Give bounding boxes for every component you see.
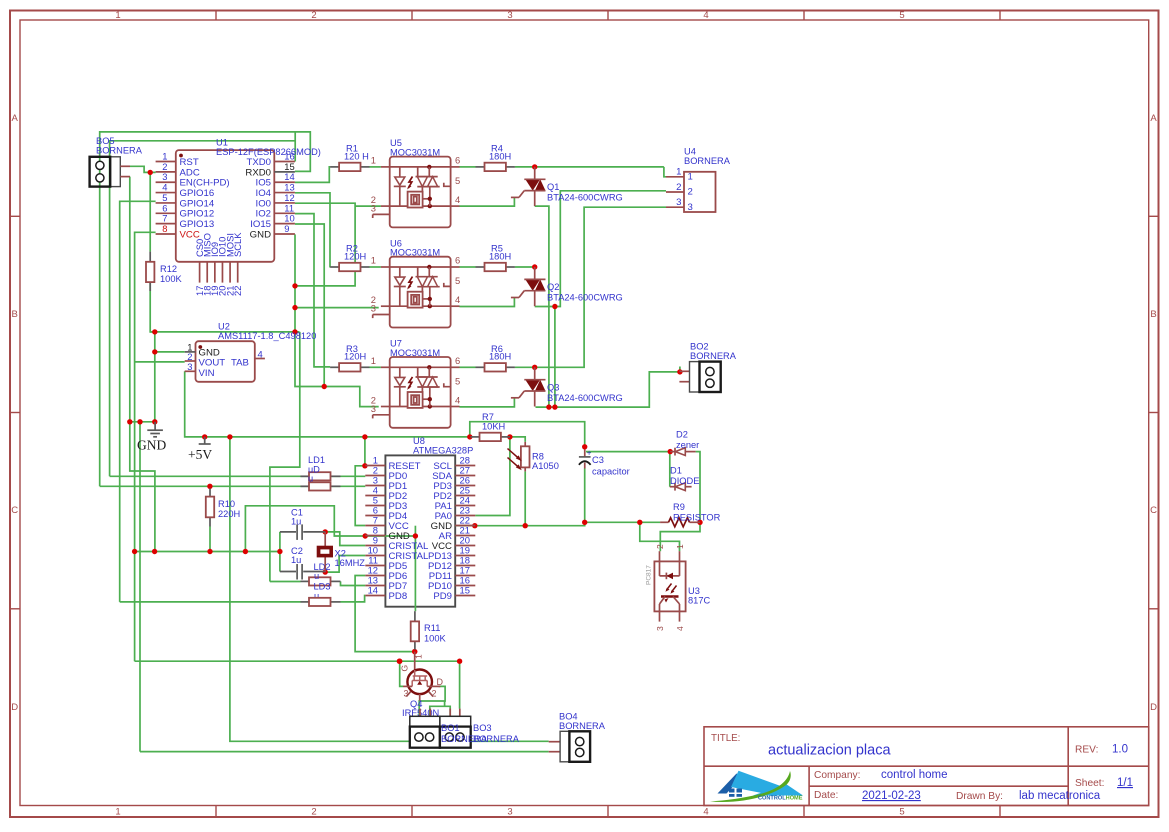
svg-text:TXD0: TXD0 xyxy=(246,157,271,168)
wire U7 pin4 gate Q3 xyxy=(460,398,515,407)
svg-text:B: B xyxy=(1150,309,1156,320)
svg-text:180H: 180H xyxy=(489,151,511,161)
svg-text:8: 8 xyxy=(162,223,167,234)
svg-text:1: 1 xyxy=(162,151,167,162)
svg-text:3: 3 xyxy=(162,171,167,182)
wire U7 pin6 to R6 xyxy=(460,366,476,368)
svg-text:CONTROLHOME: CONTROLHOME xyxy=(758,796,803,802)
svg-text:MOC3031M: MOC3031M xyxy=(390,348,440,358)
wire BO5 pin2 GND bus xyxy=(129,177,131,422)
resistor R4 xyxy=(476,166,485,168)
svg-text:U3: U3 xyxy=(688,586,700,596)
svg-text:5: 5 xyxy=(899,10,904,21)
svg-text:16: 16 xyxy=(284,151,294,162)
svg-text:LD3: LD3 xyxy=(314,582,331,592)
svg-text:5: 5 xyxy=(899,807,904,818)
wire R10 bottom xyxy=(209,527,211,552)
svg-text:7: 7 xyxy=(162,213,167,224)
svg-text:3: 3 xyxy=(371,403,376,414)
svg-text:120H: 120H xyxy=(344,251,366,261)
svg-text:4: 4 xyxy=(675,626,685,631)
svg-text:RST: RST xyxy=(180,157,199,168)
svg-text:D1: D1 xyxy=(670,466,682,476)
svg-text:12: 12 xyxy=(284,192,294,203)
capacitor C2 xyxy=(280,571,296,573)
company logo xyxy=(710,771,803,802)
svg-text:D: D xyxy=(437,677,444,687)
wire X2 bot to CRISTAL10 xyxy=(325,556,365,573)
wire C1 C2 left xyxy=(279,532,281,572)
svg-text:C: C xyxy=(11,505,18,516)
U4 BORNERA connector xyxy=(684,172,716,212)
wire ADC to R12 xyxy=(149,172,151,251)
resistor R1 xyxy=(330,166,339,168)
svg-text:3: 3 xyxy=(187,361,192,372)
wire R7 to PA0 xyxy=(475,437,510,516)
frame column ticks top xyxy=(215,11,217,21)
svg-text:1u: 1u xyxy=(291,517,301,527)
svg-text:U2: U2 xyxy=(218,322,230,332)
svg-text:PD8: PD8 xyxy=(389,591,408,602)
svg-text:BTA24-600CWRG: BTA24-600CWRG xyxy=(547,193,623,203)
resistor R10 xyxy=(209,489,211,497)
svg-text:BORNERA: BORNERA xyxy=(690,351,737,361)
U2 pins xyxy=(185,351,196,353)
wire GND horizontal U2 xyxy=(150,331,299,333)
wire U3 pin1 route xyxy=(640,522,680,551)
svg-text:10KH: 10KH xyxy=(482,421,505,431)
svg-text:1: 1 xyxy=(115,10,120,21)
resistor R9 zigzag xyxy=(660,521,668,523)
wire RXD0 bus xyxy=(110,141,296,477)
wire Q4 drain to BO1 xyxy=(419,686,445,716)
svg-text:15: 15 xyxy=(284,161,294,172)
svg-text:GPIO14: GPIO14 xyxy=(180,198,215,209)
svg-text:B: B xyxy=(12,309,18,320)
svg-text:A: A xyxy=(12,113,19,124)
svg-text:LD1: LD1 xyxy=(308,455,325,465)
wire rail BO4 pin2 xyxy=(140,751,549,753)
svg-text:Sheet:: Sheet: xyxy=(1075,778,1104,789)
frame row ticks left xyxy=(10,215,20,217)
U8 ATMEGA328P box xyxy=(385,455,455,606)
U8 pins xyxy=(365,465,385,467)
U3 transistor xyxy=(661,595,679,598)
svg-text:AMS1117-1.8_C498120: AMS1117-1.8_C498120 xyxy=(218,331,316,341)
svg-text:DIODE: DIODE xyxy=(670,476,699,486)
wire GND drop via 269 xyxy=(270,332,300,582)
resistor R5 xyxy=(476,266,485,268)
svg-text:GND: GND xyxy=(137,438,166,453)
wire PD1 rail xyxy=(100,485,366,487)
BO4 bornera symbol xyxy=(549,741,560,743)
diode D1 DIODE xyxy=(670,486,675,488)
opto-triac U5 MOC3031M xyxy=(371,155,460,228)
wire R11 bottom xyxy=(414,650,416,652)
wire pin10 riser xyxy=(295,224,324,387)
svg-text:u: u xyxy=(308,474,313,484)
frame row ticks right xyxy=(1149,215,1159,217)
resistor R2 xyxy=(330,266,339,268)
wire R1 right to U5 xyxy=(370,166,381,168)
svg-text:4: 4 xyxy=(703,10,708,21)
wire R7 right xyxy=(510,437,525,442)
BO3 bornera symbol xyxy=(449,709,451,717)
wire reset to VCC pin7 xyxy=(355,466,365,526)
triac Q2 BTA24-600CWRG xyxy=(511,267,546,306)
svg-text:120H: 120H xyxy=(344,352,366,362)
svg-text:2: 2 xyxy=(432,689,437,699)
wire U6 pin4 gate Q2 xyxy=(460,298,515,307)
wire GND bus below rail xyxy=(130,422,155,552)
wire VCC 1.8V bus V5 xyxy=(135,232,156,661)
svg-text:lab mecatronica: lab mecatronica xyxy=(1019,790,1101,802)
svg-text:3: 3 xyxy=(404,689,409,699)
frame column ticks bottom xyxy=(215,806,217,817)
wire GPIO14 bus V3 xyxy=(120,201,156,602)
svg-text:1/1: 1/1 xyxy=(1117,777,1133,789)
svg-text:1: 1 xyxy=(676,167,681,178)
svg-text:4: 4 xyxy=(455,394,460,405)
wire X2 top to CRISTAL9 xyxy=(325,532,365,546)
wire R2 right to U6 xyxy=(370,266,381,268)
wire BO5 pin1 to ADC xyxy=(130,166,156,172)
crystal X2 16MHZ xyxy=(324,532,326,546)
svg-text:IO0: IO0 xyxy=(256,198,271,209)
svg-text:1u: 1u xyxy=(291,555,301,565)
svg-text:PC817: PC817 xyxy=(646,565,653,585)
BO2 bornera symbol xyxy=(679,370,689,372)
wire GND rail to symbol xyxy=(130,421,155,423)
svg-text:4: 4 xyxy=(455,194,460,205)
svg-text:100K: 100K xyxy=(160,274,183,284)
svg-text:actualizacion placa: actualizacion placa xyxy=(768,743,891,759)
svg-text:2: 2 xyxy=(676,182,681,193)
wire cap common rail xyxy=(135,551,280,553)
wire R8 bottom xyxy=(524,471,526,525)
wire D2 to R9 right xyxy=(696,452,700,523)
wire GND8 interior xyxy=(414,526,416,536)
wire U5 pin2 drop xyxy=(355,205,381,207)
ground symbol GND xyxy=(154,422,156,430)
svg-text:BORNERA: BORNERA xyxy=(473,734,520,744)
svg-text:ESP-12F(ESP8266MOD): ESP-12F(ESP8266MOD) xyxy=(216,147,321,157)
wire R12 bottom to GND wire xyxy=(150,282,155,332)
svg-text:22: 22 xyxy=(232,286,243,296)
U1 ESP-12F box xyxy=(176,150,274,262)
svg-text:ADC: ADC xyxy=(180,167,200,178)
wire C3 bottom rail xyxy=(585,469,660,523)
svg-text:BO4: BO4 xyxy=(559,712,578,722)
wire body D to pin 14 xyxy=(341,596,366,602)
svg-text:U1: U1 xyxy=(216,138,228,148)
svg-text:15: 15 xyxy=(460,585,470,596)
svg-text:GND: GND xyxy=(250,229,271,240)
svg-text:R8: R8 xyxy=(532,452,544,462)
svg-text:2: 2 xyxy=(311,10,316,21)
wire GND22 row xyxy=(455,522,585,525)
svg-text:BORNERA: BORNERA xyxy=(96,146,143,156)
svg-text:GPIO13: GPIO13 xyxy=(180,219,215,230)
svg-text:5: 5 xyxy=(455,275,460,286)
wire U5 pin4 gate Q1 xyxy=(460,197,515,206)
resistor R7 xyxy=(471,436,480,438)
svg-text:R12: R12 xyxy=(160,264,177,274)
svg-text:IO15: IO15 xyxy=(250,219,271,230)
wire R7 +5V L xyxy=(470,422,585,447)
svg-text:3: 3 xyxy=(688,202,693,213)
svg-text:R9: R9 xyxy=(673,502,685,512)
svg-text:C: C xyxy=(1150,505,1157,516)
svg-text:2: 2 xyxy=(162,161,167,172)
svg-text:control home: control home xyxy=(881,769,947,781)
BO1 bornera symbol xyxy=(419,709,421,717)
svg-text:TITLE:: TITLE: xyxy=(711,733,740,744)
svg-text:1.0: 1.0 xyxy=(1112,744,1128,756)
svg-text:RXD0: RXD0 xyxy=(245,167,271,178)
wire rail BO4 pin1 xyxy=(471,740,549,742)
svg-text:2: 2 xyxy=(655,544,665,549)
svg-text:14: 14 xyxy=(284,171,294,182)
indicator LD3 body C xyxy=(301,580,310,582)
svg-text:1: 1 xyxy=(688,171,693,182)
wire D1 left riser xyxy=(669,452,671,487)
power flag +5V xyxy=(204,437,206,444)
svg-text:IO4: IO4 xyxy=(256,188,272,199)
resistor R12 xyxy=(149,252,151,262)
wire pin13 to R2 xyxy=(295,193,330,267)
wire R5 to Q2 xyxy=(515,266,535,268)
svg-text:+5V: +5V xyxy=(188,447,212,462)
U2 AMS1117 box xyxy=(196,341,255,382)
U1 pins left xyxy=(156,161,176,163)
BO5 bornera symbol xyxy=(110,157,120,187)
svg-text:1: 1 xyxy=(414,654,424,659)
svg-text:1: 1 xyxy=(371,255,376,266)
transistor Q4 IRF540N mosfet xyxy=(414,652,416,670)
svg-text:4: 4 xyxy=(258,349,263,360)
svg-text:6: 6 xyxy=(455,255,460,266)
optocoupler U3 817C xyxy=(654,561,685,611)
wire VOUT to bus xyxy=(135,361,185,363)
svg-text:BTA24-600CWRG: BTA24-600CWRG xyxy=(547,393,623,403)
svg-text:U4: U4 xyxy=(684,147,696,157)
svg-text:1: 1 xyxy=(371,155,376,166)
resistor R11 xyxy=(414,611,416,621)
wire R6 to Q3 xyxy=(515,366,535,368)
wire Q3 bottom to BO2 xyxy=(536,372,680,407)
svg-text:D: D xyxy=(11,702,18,713)
svg-text:BO2: BO2 xyxy=(690,342,709,352)
svg-text:4: 4 xyxy=(703,807,708,818)
capacitor C1 xyxy=(280,531,296,533)
svg-text:3: 3 xyxy=(676,197,681,208)
triac Q3 BTA24-600CWRG xyxy=(511,367,546,406)
wire reset riser from +5V xyxy=(364,437,366,466)
svg-text:D2: D2 xyxy=(676,430,688,440)
svg-text:3: 3 xyxy=(371,203,376,214)
wire pin14 to R1 xyxy=(295,167,330,183)
svg-text:220H: 220H xyxy=(218,509,240,519)
svg-text:G: G xyxy=(400,665,410,672)
svg-text:MOC3031M: MOC3031M xyxy=(390,147,440,157)
svg-text:EN(CH-PD): EN(CH-PD) xyxy=(180,178,230,189)
svg-text:GPIO12: GPIO12 xyxy=(180,209,215,220)
svg-text:BORNERA: BORNERA xyxy=(684,156,731,166)
wire LD3 to PD7 xyxy=(341,581,366,585)
svg-text:6: 6 xyxy=(455,355,460,366)
svg-text:A: A xyxy=(1150,113,1157,124)
svg-text:VIN: VIN xyxy=(199,368,215,379)
svg-text:zener: zener xyxy=(676,440,699,450)
indicator body D xyxy=(301,601,310,603)
svg-text:3: 3 xyxy=(371,303,376,314)
svg-text:capacitor: capacitor xyxy=(592,467,630,477)
svg-text:Date:: Date: xyxy=(814,790,838,801)
svg-text:Company:: Company: xyxy=(814,770,860,781)
svg-text:120 H: 120 H xyxy=(344,151,369,161)
svg-text:4: 4 xyxy=(162,182,167,193)
wire gate rail2 xyxy=(135,661,460,708)
indicator body B xyxy=(301,485,310,487)
svg-text:TAB: TAB xyxy=(231,358,249,369)
svg-text:100K: 100K xyxy=(424,634,447,644)
wire U2 pin1 branch xyxy=(154,332,156,422)
svg-text:6: 6 xyxy=(455,155,460,166)
wire LD3 row xyxy=(270,581,301,583)
photoresistor R8 A1050 xyxy=(524,442,526,446)
svg-text:A1050: A1050 xyxy=(532,461,559,471)
svg-text:SCLK: SCLK xyxy=(232,232,243,257)
svg-text:11: 11 xyxy=(284,202,294,213)
triac Q1 BTA24-600CWRG xyxy=(511,167,546,206)
svg-text:13: 13 xyxy=(284,182,294,193)
wire Q1 bottom down xyxy=(535,206,549,407)
svg-text:GPIO16: GPIO16 xyxy=(180,188,215,199)
U3 emission arrows xyxy=(667,584,672,591)
wire U6 pin6 to R5 xyxy=(460,266,476,268)
svg-text:3: 3 xyxy=(655,626,665,631)
wire body D row PD8 xyxy=(120,601,301,603)
resistor R3 xyxy=(330,366,339,368)
opto-triac U6 MOC3031M xyxy=(371,255,460,328)
wire Q2 bottom down xyxy=(554,307,556,408)
svg-text:1: 1 xyxy=(115,807,120,818)
svg-text:U8: U8 xyxy=(413,436,425,446)
wire +5V bus down xyxy=(230,437,410,741)
svg-text:IO5: IO5 xyxy=(256,178,271,189)
wire TXD0 top bus xyxy=(100,132,296,486)
svg-text:180H: 180H xyxy=(489,352,511,362)
svg-text:Q3: Q3 xyxy=(547,382,559,392)
svg-text:2021-02-23: 2021-02-23 xyxy=(862,790,921,802)
svg-text:BO1: BO1 xyxy=(441,723,460,733)
svg-text:1: 1 xyxy=(371,355,376,366)
wire R3 right to U7 xyxy=(370,366,381,368)
indicator LD1 body A xyxy=(301,475,310,477)
U1 pins right xyxy=(274,161,295,163)
wire U2 VIN to +5V rail xyxy=(185,371,470,437)
wire R9 right down U3 xyxy=(660,522,700,551)
svg-text:4: 4 xyxy=(455,294,460,305)
svg-text:R11: R11 xyxy=(424,623,440,633)
svg-text:D: D xyxy=(1150,702,1157,713)
U1 pins bottom xyxy=(199,262,201,283)
svg-text:PD9: PD9 xyxy=(433,591,452,602)
svg-text:2: 2 xyxy=(311,807,316,818)
svg-text:IO2: IO2 xyxy=(256,209,271,220)
BO5 pins xyxy=(120,165,130,167)
wire Q4 source drop xyxy=(400,661,403,686)
wire BO2 nub xyxy=(679,367,681,372)
svg-text:REV:: REV: xyxy=(1075,745,1098,756)
svg-text:3: 3 xyxy=(507,807,512,818)
wire PD0 rail xyxy=(110,475,366,477)
svg-text:2: 2 xyxy=(688,187,693,198)
svg-text:1: 1 xyxy=(675,544,685,549)
resistor R6 xyxy=(476,366,485,368)
wire pin12 IO0 riser xyxy=(295,203,355,286)
wire U6 pin2 row xyxy=(295,307,379,309)
wire pin11 to R3 xyxy=(295,214,330,367)
wire PD6 to gate rail xyxy=(355,576,415,652)
wire U5 pin6 to R4 xyxy=(460,166,476,168)
svg-text:R10: R10 xyxy=(218,499,235,509)
capacitor C3 polarized xyxy=(584,450,586,457)
wire C3 top to D2 xyxy=(586,451,670,453)
svg-text:180H: 180H xyxy=(489,251,511,261)
svg-text:X2: X2 xyxy=(335,549,346,559)
wire R4 to Q1 xyxy=(515,166,664,168)
svg-text:817C: 817C xyxy=(688,596,711,606)
diode D2 zener xyxy=(670,451,675,453)
svg-text:BO5: BO5 xyxy=(96,136,115,146)
svg-text:14: 14 xyxy=(368,585,378,596)
wire Q1 to U4 pin1 xyxy=(664,167,666,177)
wire TXD0 to R1 drop xyxy=(295,132,310,172)
wire Q3 top to U4 pin3 xyxy=(535,207,666,367)
wire rail to GND8 path xyxy=(245,506,415,552)
opto-triac U7 MOC3031M xyxy=(371,355,460,428)
svg-text:16MHZ: 16MHZ xyxy=(335,558,366,568)
svg-text:5: 5 xyxy=(455,375,460,386)
svg-text:RESISTOR: RESISTOR xyxy=(673,513,721,523)
svg-text:BO3: BO3 xyxy=(473,723,492,733)
svg-text:Drawn By:: Drawn By: xyxy=(956,791,1003,802)
svg-text:MOC3031M: MOC3031M xyxy=(390,248,440,258)
svg-text:5: 5 xyxy=(162,192,167,203)
svg-text:10: 10 xyxy=(284,213,294,224)
wire Q2 bottom to U4 pin2 xyxy=(535,191,666,307)
svg-text:3: 3 xyxy=(507,10,512,21)
svg-text:5: 5 xyxy=(455,175,460,186)
svg-text:BORNERA: BORNERA xyxy=(559,721,606,731)
svg-text:Q1: Q1 xyxy=(547,182,559,192)
svg-text:Q2: Q2 xyxy=(547,282,559,292)
wire GND pin9 bus xyxy=(295,234,379,406)
wire GND8 drop R11 xyxy=(414,536,416,611)
title block xyxy=(704,727,1149,806)
junction dots xyxy=(148,170,153,175)
svg-text:BTA24-600CWRG: BTA24-600CWRG xyxy=(547,293,623,303)
wire BO1 BO3 link xyxy=(444,701,446,706)
svg-text:6: 6 xyxy=(162,202,167,213)
svg-text:9: 9 xyxy=(284,223,289,234)
svg-text:C3: C3 xyxy=(592,455,604,465)
svg-text:u: u xyxy=(314,571,319,581)
wire GND-LD3 bus xyxy=(139,422,141,752)
